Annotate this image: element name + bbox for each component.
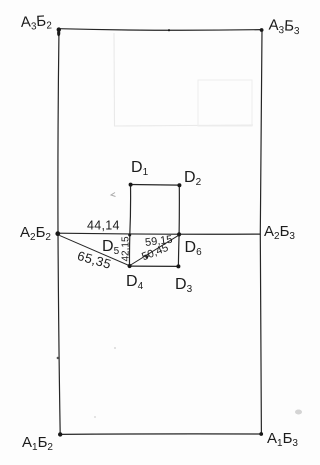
node A1B2 corner dot <box>58 432 62 436</box>
wire: outer left edge A3B2-A1B2 <box>58 29 60 435</box>
wire: outer right edge A3B3-A1B3 <box>260 30 262 434</box>
wire: diagonal A2B2-D4 (65,35) <box>60 236 129 266</box>
node A1B3 corner dot <box>259 432 263 436</box>
node D5 junction dot <box>128 234 131 237</box>
faint smudge right side <box>295 410 302 415</box>
node A3B2 corner dot <box>57 27 61 31</box>
node D1 dot <box>129 183 133 187</box>
node D2 dot <box>177 183 181 187</box>
node D4 dot <box>128 264 132 268</box>
faint specks <box>114 347 116 349</box>
tick on top edge <box>168 29 170 31</box>
wire: outer top edge A3B2-A3B3 <box>59 29 262 31</box>
arrowhead on D4-D6 line near 50,45 <box>145 255 150 259</box>
wire: inner rect top D1-D2 <box>131 184 180 187</box>
wire: inner rect left vertical D1-D5-D4 <box>129 185 130 266</box>
faint bleed-through lines <box>114 33 253 126</box>
svg-text:44,14: 44,14 <box>87 219 120 233</box>
wire: diagonal D4-D6 (50,45) <box>130 235 179 265</box>
wire: middle horizontal A2B2-A2B3 <box>58 233 260 234</box>
wire: inner rect right vertical D2-D6-D3 <box>177 185 180 266</box>
node D6 dot <box>177 232 181 236</box>
faint angle mark <box>111 193 116 197</box>
wire: outer bottom edge A1B2-A1B3 <box>60 433 261 436</box>
node A3B3 corner dot <box>260 28 264 32</box>
node D3 dot <box>176 264 180 268</box>
svg-text:42,15: 42,15 <box>121 236 132 261</box>
wire: inner bottom D4-D3 <box>130 265 179 267</box>
node A2B2 dot <box>55 231 60 236</box>
